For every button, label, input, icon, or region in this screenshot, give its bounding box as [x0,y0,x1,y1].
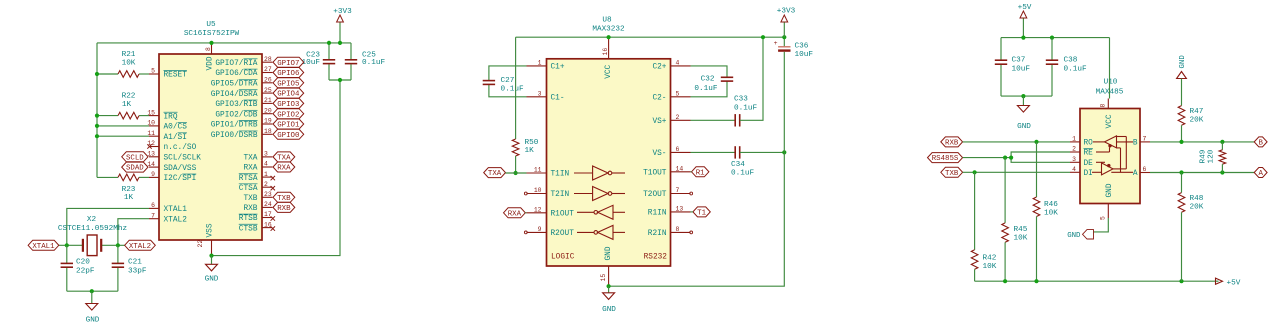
U8 pin 6 VS- [652,146,690,158]
U5 pin 25 GPIO4/DSRA [211,87,273,99]
global label A [1254,168,1267,178]
svg-text:28: 28 [264,56,272,63]
svg-text:+5V: +5V [1018,4,1032,12]
svg-text:1: 1 [1072,136,1076,143]
svg-text:RESET: RESET [164,72,188,80]
svg-text:11: 11 [534,167,542,174]
svg-text:10K: 10K [1044,210,1058,218]
svg-text:SDAD: SDAD [126,165,144,173]
svg-text:C32: C32 [701,76,715,84]
capacitor C23 10uF [302,43,336,80]
U5 pin 17 RTSB [239,211,273,223]
svg-text:2: 2 [1072,146,1076,153]
svg-text:20: 20 [264,107,272,114]
svg-text:GND: GND [86,317,100,325]
ground [86,291,100,324]
svg-text:0.1uF: 0.1uF [734,105,757,113]
svg-text:GPIO2: GPIO2 [277,111,299,119]
resistor R21 10K [97,51,149,77]
svg-text:10: 10 [534,187,542,194]
IC U5 SC16IS752IPW body [159,21,262,240]
svg-text:24: 24 [264,201,272,208]
U5 pin 26 GPIO5/DTRA [211,77,273,89]
svg-text:7: 7 [1143,136,1147,143]
svg-text:GPIO7/RIA: GPIO7/RIA [215,60,257,68]
junction [1179,170,1183,174]
junction [1220,140,1224,144]
U8 pin 1 C1+ [527,60,565,72]
svg-text:GPIO5: GPIO5 [277,80,299,88]
global label RXA [504,208,526,218]
junction [1021,94,1025,98]
global label TXB [941,167,963,177]
power +5V right [1216,278,1241,288]
svg-text:0.1uF: 0.1uF [731,170,754,178]
junction [65,243,69,247]
svg-text:+: + [774,40,778,47]
svg-text:GND: GND [602,306,616,314]
junction [95,124,99,128]
capacitor C25 0.1uF [345,43,386,80]
junction [782,35,786,39]
svg-text:LOGIC: LOGIC [551,254,575,262]
ground [205,256,219,284]
U5 pin 27 GPIO6/CDA [215,66,272,78]
svg-text:10uF: 10uF [1012,66,1031,74]
svg-text:R45: R45 [1014,226,1028,234]
svg-text:0.1uF: 0.1uF [694,85,717,93]
svg-text:27: 27 [264,66,272,73]
wire XTAL1 from pin 6 [67,208,149,245]
svg-text:0.1uF: 0.1uF [501,86,524,94]
svg-text:1K: 1K [525,147,535,155]
U5 pin 28 GPIO7/RIA [215,56,272,68]
wire T1OUT to R1 [691,171,692,173]
svg-text:19: 19 [264,118,272,125]
junction [116,243,120,247]
U8 internal receiver R1 [577,211,594,213]
svg-text:2: 2 [264,181,268,188]
U8 pin 12 R1OUT [527,207,575,219]
svg-text:R1IN: R1IN [648,210,667,218]
svg-text:23: 23 [264,191,272,198]
svg-text:C2-: C2- [652,95,666,103]
svg-text:1: 1 [264,171,268,178]
ground label GND [1067,230,1093,240]
resistor R49 120 [1200,142,1226,173]
svg-text:C33: C33 [734,96,748,104]
capacitor C37 10uF [995,38,1031,97]
global label XTAL2 [125,240,156,250]
svg-text:3: 3 [1072,156,1076,163]
U10 pin 4 DI [1070,166,1093,178]
svg-text:18: 18 [264,128,272,135]
svg-text:13: 13 [676,206,684,213]
resistor R48 20K [1178,173,1204,282]
U8 pin 5 C2- [652,91,690,103]
junction [209,254,213,258]
U10 pin 7 B [1133,136,1150,148]
svg-text:T2OUT: T2OUT [643,191,667,199]
U5 pin 23 TXB [243,191,272,203]
svg-text:B: B [1133,140,1138,148]
svg-text:SC16IS752IPW: SC16IS752IPW [184,30,240,38]
svg-text:10uF: 10uF [795,51,814,59]
wire RS485S to RE [1011,152,1070,158]
svg-text:A1/SI: A1/SI [164,134,187,142]
U5 pin 21 GPIO3/RIB [215,97,272,109]
resistor R50 1K [512,37,538,173]
U8 pin 13 R1IN [648,206,691,218]
U10 internal receiver buffer [1093,136,1117,148]
IC U10 MAX485 body [1080,79,1140,204]
unconnected pin end [690,231,693,234]
svg-text:U5: U5 [206,21,216,29]
svg-text:16: 16 [264,221,272,228]
svg-text:TXA: TXA [488,170,502,178]
power +3V3 [777,8,796,38]
svg-text:C36: C36 [795,43,809,51]
global label RXB [941,137,963,147]
global label GPIO3 [273,98,304,108]
resistor R45 10K [1002,158,1028,282]
svg-text:R2IN: R2IN [648,230,667,238]
U5 pin 24 RXB [243,201,272,213]
U10 pin 2 RE [1070,146,1093,158]
wire +5V rail [1001,37,1110,39]
svg-text:4: 4 [676,60,680,67]
svg-text:GPIO6/CDA: GPIO6/CDA [215,70,257,78]
junction [1034,140,1038,144]
svg-text:U8: U8 [602,17,612,25]
svg-text:RS485S: RS485S [932,155,959,163]
svg-text:6: 6 [676,146,680,153]
unconnected pin end [690,192,693,195]
U5 pin 7 XTAL2 [149,212,187,224]
wire B line [1150,141,1254,143]
svg-text:6: 6 [1143,166,1147,173]
svg-text:+5V: +5V [1227,280,1241,288]
junction [607,284,611,288]
junction [782,150,786,154]
U8 pin 9 R2OUT [527,226,575,238]
svg-text:VCC: VCC [1106,114,1114,128]
capacitor C21 33pF [112,245,147,291]
U5 pin 5 RESET [149,68,187,80]
svg-text:12: 12 [534,207,542,214]
svg-text:TXA: TXA [277,155,291,163]
capacitor C32 0.1uF [691,66,734,97]
wire VCC rail U8 [516,36,785,38]
wire RS485S to DE [1011,158,1070,163]
svg-text:XTAL2: XTAL2 [129,243,151,251]
svg-text:GND: GND [1017,123,1031,131]
svg-text:RXB: RXB [945,140,959,148]
svg-text:22: 22 [197,240,204,248]
U8 internal receiver R2 [577,231,594,233]
unconnected pin end [524,231,527,234]
svg-text:10K: 10K [983,263,997,271]
svg-text:C37: C37 [1012,57,1026,65]
svg-text:8: 8 [205,47,212,51]
wire left rail [96,43,98,178]
svg-text:C1+: C1+ [551,64,565,72]
svg-text:C38: C38 [1064,57,1078,65]
svg-text:GND: GND [205,276,219,284]
global label GPIO2 [273,109,304,119]
global label SDAD [122,162,148,172]
U5 pin 14 SDA/VSS [147,161,196,173]
junction [514,171,518,175]
wire RXB to RO [963,141,1070,143]
wire RS485S [963,157,1012,159]
svg-text:GPIO0/DSRB: GPIO0/DSRB [211,132,258,140]
wire VCC drop [1109,38,1111,99]
svg-text:RXB: RXB [277,205,291,213]
svg-text:R47: R47 [1190,108,1204,116]
svg-text:XTAL2: XTAL2 [164,216,188,224]
global label GND vertical [1177,55,1187,79]
U5 pin 6 XTAL1 [149,202,187,214]
global label TXA [484,168,506,178]
global label GPIO0 [273,129,304,139]
U8 pin 15 GND [600,246,613,286]
svg-text:10uF: 10uF [302,59,321,67]
junction [1003,279,1007,283]
svg-text:TXB: TXB [243,195,257,203]
svg-text:20K: 20K [1190,204,1204,212]
wire to pin 10 [97,125,149,127]
svg-text:14: 14 [147,161,155,168]
junction [1050,36,1054,40]
svg-text:17: 17 [264,211,272,218]
svg-text:7: 7 [151,212,155,219]
svg-text:A: A [1133,170,1138,178]
junction [1179,279,1183,283]
capacitor C38 0.1uF [1046,38,1087,97]
no-connect pin 12 [147,144,151,148]
U8 pin 14 T1OUT [643,166,690,178]
U10 internal connections [1092,137,1133,173]
capacitor C36 10uF polarized [774,37,814,152]
svg-text:20K: 20K [1190,117,1204,125]
U10 pin 3 DE [1070,156,1093,168]
junction [338,78,342,82]
global label B [1254,137,1267,147]
svg-text:26: 26 [264,77,272,84]
U8 pin 16 VCC [602,37,613,79]
junction [95,114,99,118]
svg-text:21: 21 [264,97,272,104]
svg-text:16: 16 [602,48,609,56]
junction [209,41,213,45]
power +5V [1018,4,1032,37]
svg-text:22pF: 22pF [76,267,95,275]
U8 pin 2 VS+ [652,114,690,126]
U5 pin 13 SCL/SCLK [147,151,201,163]
wire caps bottom [1001,95,1052,97]
U8 pin 3 C1- [527,91,565,103]
wire +5V bottom rail [975,280,1219,282]
svg-text:R2OUT: R2OUT [551,230,575,238]
svg-text:+3V3: +3V3 [777,8,796,16]
svg-text:GND: GND [1179,55,1187,69]
wire crystal caps to ground [67,290,118,292]
wire U10 GND [1094,218,1109,232]
U10 internal driver buffer [1102,163,1114,175]
svg-text:RXA: RXA [277,165,291,173]
junction [90,289,94,293]
wire TXB to DI [963,171,1070,173]
junction [1220,170,1224,174]
ground [1017,96,1031,131]
capacitor C27 0.1uF [483,66,527,97]
svg-text:U10: U10 [1104,79,1118,87]
svg-text:RXA: RXA [508,210,522,218]
svg-text:10K: 10K [122,60,136,68]
svg-text:GPIO4/DSRA: GPIO4/DSRA [211,91,258,99]
global label GPIO5 [273,78,304,88]
svg-text:3: 3 [264,151,268,158]
U10 pin 5 GND [1100,183,1114,220]
svg-text:T1: T1 [697,210,706,218]
U8 pin 11 T1IN [527,167,570,179]
resistor R46 10K [1033,142,1058,281]
svg-text:RO: RO [1084,140,1094,148]
U5 pin 12 n.c./SO [147,140,196,152]
svg-text:X2: X2 [87,216,97,224]
U5 pin 3 TXA [243,151,272,163]
svg-text:GPIO3/RIB: GPIO3/RIB [215,101,257,109]
U8 pin 4 C2+ [652,60,690,72]
svg-text:C1-: C1- [551,95,565,103]
U5 pin 16 CTSB [239,221,273,233]
svg-text:9: 9 [538,226,542,233]
global label GPIO6 [273,68,304,78]
svg-text:4: 4 [264,161,268,168]
global label RXA [273,162,295,172]
resistor R23 1K [97,174,149,202]
svg-text:RE: RE [1084,150,1094,158]
svg-text:5: 5 [676,91,680,98]
svg-text:T2IN: T2IN [551,191,570,199]
svg-text:33pF: 33pF [128,267,147,275]
svg-text:GND: GND [1106,183,1114,197]
svg-text:RXB: RXB [243,205,257,213]
resistor R22 1K [97,93,149,119]
svg-text:3: 3 [538,91,542,98]
junction [607,35,611,39]
svg-text:RS232: RS232 [644,254,668,262]
svg-text:5: 5 [151,68,155,75]
svg-text:R1OUT: R1OUT [551,211,575,219]
svg-text:TXB: TXB [277,195,291,203]
U5 pin 20 GPIO2/CDB [215,107,272,119]
no-connect pin [271,186,275,190]
svg-text:GPIO1/DTRB: GPIO1/DTRB [211,122,258,130]
svg-text:5: 5 [1100,216,1107,220]
power +3V3 [333,8,352,43]
capacitor C33 0.1uF [691,37,764,126]
svg-text:CSTCE11.0592Mhz: CSTCE11.0592Mhz [58,225,128,233]
svg-text:GPIO6: GPIO6 [277,70,299,78]
U8 pin 7 T2OUT [643,187,690,199]
capacitor C20 22pF [61,245,95,291]
svg-text:MAX3232: MAX3232 [592,25,625,33]
U5 pin 2 CTSA [239,181,273,193]
wire RXA to R1OUT [525,212,526,214]
no-connect pin [271,226,275,230]
wire XTAL2 from pin 7 [118,219,149,246]
wire TXA to T1IN [506,172,527,174]
global label TXB [273,192,295,202]
svg-text:C34: C34 [731,161,745,169]
svg-text:n.c./SO: n.c./SO [164,144,197,152]
U5 pin 9 I2C/SPI [149,171,196,183]
junction [1003,156,1007,160]
U5 pin 11 A1/SI [147,130,187,142]
svg-text:RXA: RXA [243,165,257,173]
wire R1IN to T1 [691,211,693,213]
global label XTAL1 [28,240,59,250]
svg-text:B: B [1258,140,1263,148]
svg-text:4: 4 [1072,166,1076,173]
wire cap bottoms [329,79,351,81]
svg-text:GPIO2/CDB: GPIO2/CDB [215,111,257,119]
global label R1 [692,167,709,177]
svg-text:XTAL1: XTAL1 [164,206,188,214]
svg-text:GND: GND [1067,232,1081,240]
svg-text:R1: R1 [696,169,705,177]
junction [973,170,977,174]
unconnected pin end [524,192,527,195]
svg-text:R22: R22 [122,93,136,101]
IC U8 MAX3232 body [547,17,671,267]
U5 pin 18 GPIO0/DSRB [211,128,273,140]
svg-text:R48: R48 [1190,195,1204,203]
svg-text:R46: R46 [1044,201,1058,209]
svg-text:VDD: VDD [206,56,214,70]
U5 pin 19 GPIO1/DTRB [211,118,273,130]
svg-text:R23: R23 [122,186,136,194]
junction [338,41,342,45]
global label RXB [273,202,295,212]
svg-text:C27: C27 [501,77,515,85]
svg-text:DI: DI [1084,170,1093,178]
svg-text:8: 8 [1100,104,1107,108]
svg-text:VSS: VSS [206,223,214,237]
svg-text:VS+: VS+ [652,118,666,126]
junction [1034,279,1038,283]
svg-text:CTSB: CTSB [239,225,258,233]
svg-text:C21: C21 [128,259,142,267]
svg-text:R42: R42 [983,255,997,263]
ground [602,286,616,314]
global label GPIO1 [273,119,304,129]
wire +3V3 top rail [97,42,351,44]
junction [1021,36,1025,40]
svg-text:GPIO0: GPIO0 [277,132,299,140]
svg-text:TXB: TXB [945,170,959,178]
svg-text:2: 2 [676,114,680,121]
svg-text:25: 25 [264,87,272,94]
wire to pin 11 [97,135,149,137]
svg-text:0.1uF: 0.1uF [1064,66,1087,74]
U8 internal driver T1 [574,172,593,174]
svg-text:R21: R21 [122,51,136,59]
svg-text:14: 14 [676,166,684,173]
junction [95,72,99,76]
